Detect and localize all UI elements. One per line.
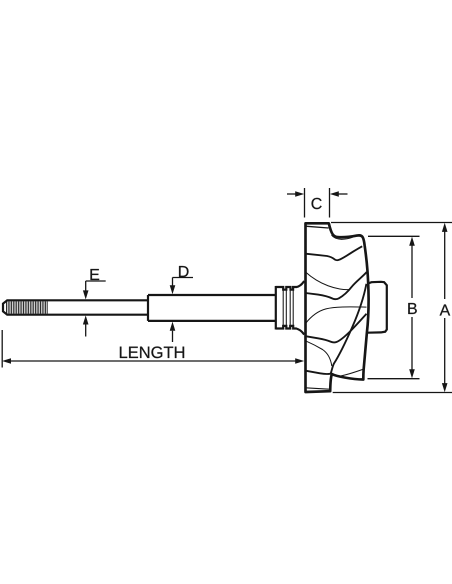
dimension A line (444, 231, 446, 384)
dimension B line (411, 245, 413, 370)
piston ring collar bottom outline (276, 326, 304, 335)
label B (408, 303, 417, 314)
turbine wheel outline (306, 223, 369, 392)
dimension B bottom arrowhead (409, 369, 415, 378)
label D (179, 266, 188, 277)
dimension E arrow (top) (86, 281, 106, 291)
blade tip line 2 (thin) (306, 307, 367, 324)
blade curve 2 (bold) (306, 272, 367, 299)
shaft step (147, 295, 149, 321)
piston ring collar top outline (276, 281, 305, 290)
dimension B extension line bottom (368, 378, 420, 380)
LENGTH dimension line (10, 360, 297, 362)
thread hatch lines (7, 301, 48, 314)
dimension C left arrow (287, 193, 297, 195)
LENGTH left extension line (1, 330, 3, 368)
exducer trailing thin line (306, 388, 330, 389)
LENGTH left arrowhead (2, 358, 11, 363)
label C (312, 198, 322, 209)
label A (440, 304, 451, 315)
blade tip line 1 (thin) (306, 272, 350, 290)
stub shaft (E section) (49, 300, 149, 314)
blade thin line 3 (306, 341, 332, 366)
hub boss behind wheel (368, 282, 387, 333)
threaded shaft end (3, 300, 49, 314)
exducer lip thin line (341, 369, 363, 376)
main shaft (D section) (148, 295, 276, 321)
dimension B extension line top (368, 235, 420, 237)
blade curve 1 (bold) (306, 246, 363, 260)
piston ring groove walls (283, 290, 293, 326)
label E (90, 269, 99, 280)
dimension A extension line bottom (333, 392, 452, 394)
blade curve 4 (big sweep) (306, 284, 367, 374)
dimension A bottom arrowhead (442, 383, 448, 392)
dimension A extension line top (331, 222, 452, 224)
dimension B top arrowhead (409, 237, 415, 246)
dimension C right arrow (338, 193, 348, 195)
piston ring collar left edge (275, 286, 277, 330)
label LENGTH (120, 346, 184, 358)
dimension E arrow (bottom) (85, 325, 87, 337)
shroud band inner line (top) (305, 226, 328, 228)
dimension C extension lines (305, 188, 330, 218)
LENGTH right arrowhead (295, 358, 304, 363)
shroud dip companion line (332, 235, 353, 239)
dimension D arrow (top) (173, 278, 194, 287)
blade curve 3 (bold) (306, 314, 367, 343)
dimension A top arrowhead (442, 223, 448, 232)
dimension D arrow (bottom) (172, 331, 174, 342)
